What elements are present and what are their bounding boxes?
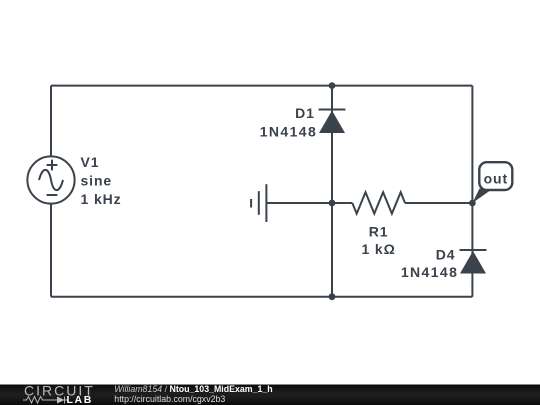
svg-text:1N4148: 1N4148 [260,123,317,139]
svg-text:1N4148: 1N4148 [401,264,458,280]
svg-text:sine: sine [81,173,113,189]
svg-text:William8154 / Ntou_103_MidExam: William8154 / Ntou_103_MidExam_1_h [114,384,272,394]
svg-text:D4: D4 [436,246,456,262]
svg-text:out: out [484,170,508,186]
svg-text:1 kHz: 1 kHz [81,191,122,207]
svg-text:1 kΩ: 1 kΩ [361,241,395,257]
svg-text:D1: D1 [295,105,315,121]
svg-text:V1: V1 [81,154,100,170]
svg-text:http://circuitlab.com/cgxv2b3: http://circuitlab.com/cgxv2b3 [114,394,225,404]
svg-text:R1: R1 [369,223,389,239]
svg-text:LAB: LAB [67,394,93,405]
